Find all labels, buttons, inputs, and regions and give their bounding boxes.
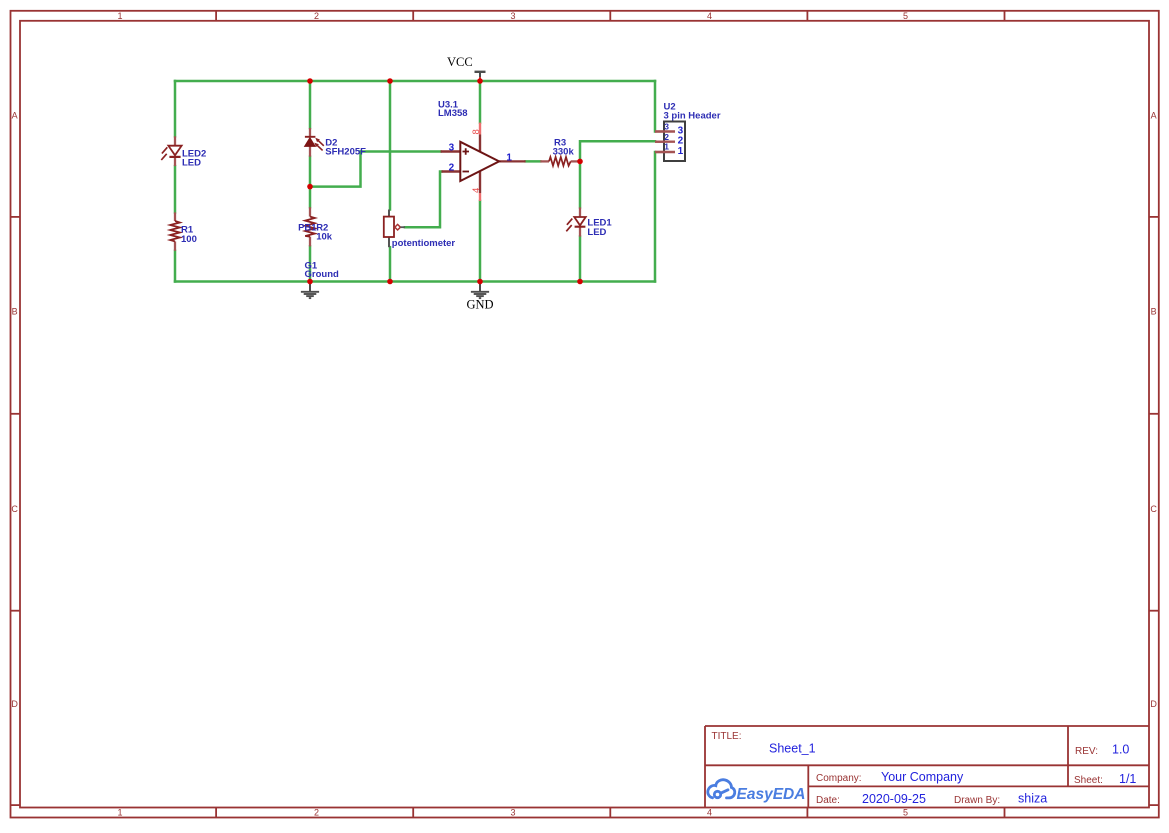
svg-text:8: 8 <box>471 129 482 134</box>
svg-text:LED: LED <box>587 227 606 238</box>
svg-text:TITLE:: TITLE: <box>712 731 742 742</box>
svg-text:EasyEDA: EasyEDA <box>737 786 806 803</box>
svg-text:Your Company: Your Company <box>881 770 964 784</box>
svg-text:4: 4 <box>471 188 482 193</box>
svg-text:A: A <box>12 110 18 120</box>
svg-text:GND: GND <box>467 298 494 312</box>
svg-text:B: B <box>12 307 18 317</box>
svg-text:D: D <box>11 699 18 709</box>
svg-text:1: 1 <box>117 808 122 818</box>
svg-text:2: 2 <box>664 132 669 142</box>
svg-text:3 pin Header: 3 pin Header <box>664 111 721 122</box>
svg-text:1/1: 1/1 <box>1119 772 1136 786</box>
svg-text:Sheet:: Sheet: <box>1074 775 1103 786</box>
svg-text:REV:: REV: <box>1075 746 1098 757</box>
svg-text:Ground: Ground <box>305 269 339 280</box>
svg-text:330k: 330k <box>553 147 575 158</box>
svg-text:4: 4 <box>707 11 712 21</box>
svg-text:5: 5 <box>903 11 908 21</box>
svg-text:LED: LED <box>182 158 201 169</box>
svg-text:1.0: 1.0 <box>1112 743 1129 757</box>
svg-text:10k: 10k <box>316 232 333 243</box>
svg-text:2020-09-25: 2020-09-25 <box>862 792 926 806</box>
svg-text:Sheet_1: Sheet_1 <box>769 742 816 756</box>
svg-text:1: 1 <box>664 142 669 152</box>
svg-text:3: 3 <box>510 808 515 818</box>
svg-text:D: D <box>1150 699 1157 709</box>
svg-text:2: 2 <box>314 11 319 21</box>
svg-text:C: C <box>1150 504 1157 514</box>
svg-text:Date:: Date: <box>816 795 840 806</box>
svg-text:3: 3 <box>449 143 455 154</box>
svg-text:1: 1 <box>506 153 512 164</box>
svg-text:3: 3 <box>664 122 669 132</box>
svg-text:4: 4 <box>707 808 712 818</box>
svg-text:Company:: Company: <box>816 773 862 784</box>
svg-text:shiza: shiza <box>1018 792 1047 806</box>
svg-text:1: 1 <box>117 11 122 21</box>
svg-text:100: 100 <box>181 234 197 245</box>
svg-text:3: 3 <box>510 11 515 21</box>
svg-text:C: C <box>11 504 18 514</box>
svg-text:2: 2 <box>449 163 455 174</box>
svg-text:1: 1 <box>678 146 684 157</box>
svg-text:potentiometer: potentiometer <box>392 238 456 249</box>
svg-text:LM358: LM358 <box>438 108 468 119</box>
svg-text:VCC: VCC <box>447 55 473 69</box>
svg-text:PB1: PB1 <box>298 223 317 234</box>
svg-text:5: 5 <box>903 808 908 818</box>
svg-text:Drawn By:: Drawn By: <box>954 795 1000 806</box>
svg-text:SFH205F: SFH205F <box>325 147 366 158</box>
svg-text:2: 2 <box>314 808 319 818</box>
svg-text:2: 2 <box>678 136 684 147</box>
svg-text:A: A <box>1151 110 1157 120</box>
svg-text:B: B <box>1151 307 1157 317</box>
